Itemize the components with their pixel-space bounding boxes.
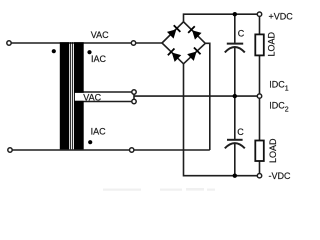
svg-text:-VDC: -VDC [269,171,291,181]
svg-text:VAC: VAC [83,93,101,103]
svg-text:C: C [237,127,244,137]
svg-text:VAC: VAC [91,30,109,40]
svg-text:IDC1: IDC1 [269,80,289,93]
svg-text:LOAD: LOAD [268,138,278,163]
svg-text:+VDC: +VDC [269,11,294,21]
svg-text:IAC: IAC [91,54,107,64]
svg-text:LOAD: LOAD [267,31,277,56]
svg-text:IDC2: IDC2 [269,100,289,113]
svg-text:IAC: IAC [91,127,107,137]
svg-text:C: C [238,29,245,39]
